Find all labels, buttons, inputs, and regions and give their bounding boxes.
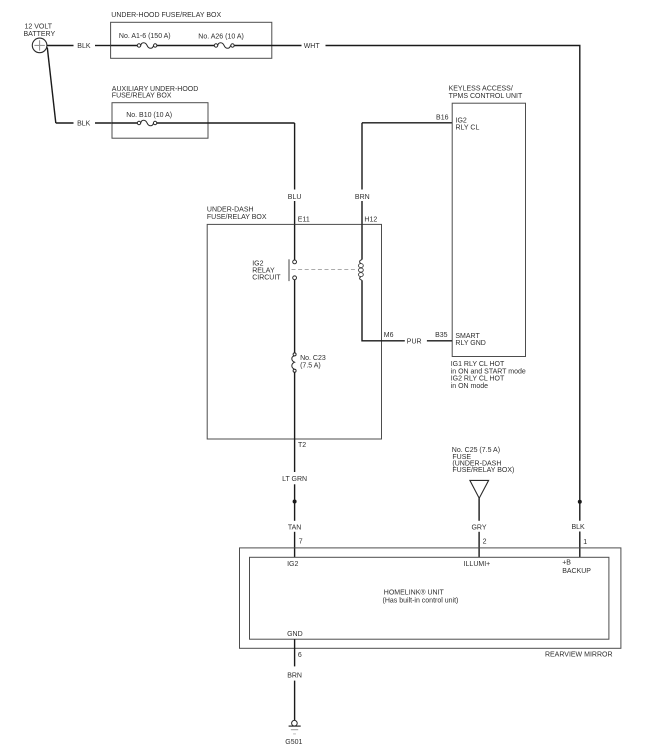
battery 12 VOLT BATTERY xyxy=(24,23,56,52)
svg-text:No. C23: No. C23 xyxy=(300,355,326,362)
svg-text:BLK: BLK xyxy=(572,524,586,531)
svg-text:BLU: BLU xyxy=(288,194,302,201)
svg-text:(7.5 A): (7.5 A) xyxy=(300,362,321,369)
fuse No. A1-6 (150 A) xyxy=(119,33,171,48)
svg-text:PUR: PUR xyxy=(407,338,422,345)
svg-text:G501: G501 xyxy=(285,739,302,746)
svg-text:2: 2 xyxy=(483,538,487,545)
svg-text:UNDER-DASH: UNDER-DASH xyxy=(207,206,254,213)
rearview mirror outer box xyxy=(240,548,621,648)
wire right vertical feed to rearview mirror xyxy=(579,46,581,521)
svg-text:BLK: BLK xyxy=(77,43,91,50)
svg-text:RLY CL: RLY CL xyxy=(456,125,480,132)
wire T2 down to rearview mirror pin 7 xyxy=(294,439,296,472)
auxiliary under-hood fuse/relay box xyxy=(112,103,208,139)
svg-text:6: 6 xyxy=(298,652,302,659)
wire battery to auxiliary box (BLK) xyxy=(56,122,74,124)
svg-text:FUSE/RELAY BOX): FUSE/RELAY BOX) xyxy=(452,467,514,474)
wire through auxiliary box xyxy=(112,122,139,124)
svg-text:GRY: GRY xyxy=(471,525,486,532)
svg-text:BRN: BRN xyxy=(355,194,370,201)
svg-text:(Has built-in control unit): (Has built-in control unit) xyxy=(383,598,459,605)
svg-text:+B: +B xyxy=(562,560,571,567)
junction dot right xyxy=(578,500,582,504)
wire coil down and right to M6 xyxy=(362,280,382,341)
svg-text:BATTERY: BATTERY xyxy=(24,31,56,38)
wire triangle down to pin 2 (GRY) xyxy=(478,498,480,521)
svg-text:in ON mode: in ON mode xyxy=(451,383,488,390)
under-dash fuse/relay box xyxy=(207,224,381,439)
svg-text:7: 7 xyxy=(299,539,303,546)
wire under-hood box to right corner (WHT) xyxy=(326,45,581,47)
svg-text:RLY GND: RLY GND xyxy=(455,340,485,347)
svg-text:M6: M6 xyxy=(384,332,394,339)
svg-text:HOMELINK® UNIT: HOMELINK® UNIT xyxy=(384,588,445,596)
keyless access B16 wire xyxy=(362,122,452,124)
svg-text:B16: B16 xyxy=(436,114,449,121)
svg-text:IG1 RLY CL HOT: IG1 RLY CL HOT xyxy=(451,361,505,368)
svg-text:KEYLESS ACCESS/: KEYLESS ACCESS/ xyxy=(449,85,513,92)
relay coil xyxy=(359,260,364,281)
svg-text:E11: E11 xyxy=(298,216,310,223)
svg-text:IG2: IG2 xyxy=(287,561,298,568)
svg-text:BRN: BRN xyxy=(287,672,302,679)
homelink unit inner box xyxy=(250,557,609,639)
wire battery to under-hood box (BLK) xyxy=(47,45,74,47)
svg-text:No. A26 (10 A): No. A26 (10 A) xyxy=(198,33,244,40)
fuse No. A26 (10 A) xyxy=(198,33,244,48)
svg-text:CIRCUIT: CIRCUIT xyxy=(252,275,281,282)
svg-text:in ON and START mode: in ON and START mode xyxy=(451,368,526,375)
junction dot left xyxy=(293,500,297,504)
svg-text:12 VOLT: 12 VOLT xyxy=(25,23,53,30)
svg-text:TPMS CONTROL UNIT: TPMS CONTROL UNIT xyxy=(449,93,523,100)
svg-text:IG2 RLY CL HOT: IG2 RLY CL HOT xyxy=(451,376,505,383)
svg-text:H12: H12 xyxy=(364,216,377,223)
relay contact IG2 RELAY CIRCUIT xyxy=(252,259,296,281)
svg-text:T2: T2 xyxy=(298,442,306,449)
wire M6 to B35 (PUR) xyxy=(382,340,405,342)
wire BLU vertical to under-dash box xyxy=(294,123,296,190)
svg-text:FUSE/RELAY BOX: FUSE/RELAY BOX xyxy=(207,214,267,221)
wire E11 down to relay contact xyxy=(294,224,296,260)
svg-text:No. A1-6 (150 A): No. A1-6 (150 A) xyxy=(119,33,171,40)
svg-text:LT GRN: LT GRN xyxy=(282,476,307,483)
ground G501 xyxy=(285,720,302,746)
svg-text:BACKUP: BACKUP xyxy=(562,568,591,575)
fuse C25 note text xyxy=(452,447,515,474)
svg-text:GND: GND xyxy=(287,631,303,638)
svg-text:IG2: IG2 xyxy=(252,260,263,267)
svg-text:No. B10 (10 A): No. B10 (10 A) xyxy=(126,112,172,119)
svg-text:RELAY: RELAY xyxy=(252,267,275,274)
wire through under-hood box xyxy=(111,45,139,47)
diagonal wire battery to auxiliary feed xyxy=(47,48,56,124)
svg-text:B35: B35 xyxy=(435,332,448,339)
wire GND down to ground (BRN) xyxy=(294,639,296,666)
keyless access/TPMS control unit box xyxy=(452,103,525,356)
svg-text:UNDER-HOOD FUSE/RELAY BOX: UNDER-HOOD FUSE/RELAY BOX xyxy=(111,12,221,19)
svg-text:FUSE/RELAY BOX: FUSE/RELAY BOX xyxy=(112,92,172,99)
svg-text:ILLUMI+: ILLUMI+ xyxy=(464,561,491,568)
svg-text:TAN: TAN xyxy=(288,524,301,531)
wire relay contact down to fuse C23 xyxy=(294,280,296,353)
svg-text:BLK: BLK xyxy=(77,120,91,127)
svg-text:1: 1 xyxy=(583,539,587,546)
fuse No. B10 (10 A) xyxy=(126,112,172,126)
wire fuse C23 to T2 xyxy=(294,372,296,439)
svg-text:WHT: WHT xyxy=(304,43,321,50)
svg-text:REARVIEW MIRROR: REARVIEW MIRROR xyxy=(545,652,613,659)
connector triangle (fuse C25 feed) xyxy=(470,480,489,498)
dashed relay link xyxy=(292,269,357,271)
under-hood fuse/relay box xyxy=(111,22,272,58)
svg-text:IG2: IG2 xyxy=(456,118,467,125)
svg-text:SMART: SMART xyxy=(455,333,480,340)
fuse No. C23 (7.5 A) xyxy=(292,353,326,372)
wire H12 down to relay coil xyxy=(361,224,363,259)
